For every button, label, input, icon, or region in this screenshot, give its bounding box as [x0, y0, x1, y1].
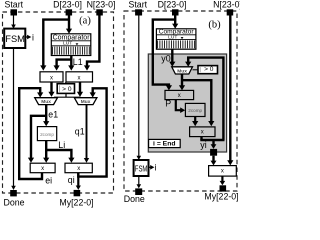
svg-text:> 0: > 0 [204, 66, 214, 73]
svg-text:D[23-0]: D[23-0] [53, 0, 82, 9]
svg-text:Done: Done [124, 194, 145, 204]
svg-text:N[23-0]: N[23-0] [213, 0, 240, 9]
svg-text:LUT: LUT [168, 35, 177, 41]
svg-text:Start: Start [129, 0, 148, 9]
svg-text:Comparator: Comparator [159, 28, 195, 35]
svg-text:N[23-0]: N[23-0] [87, 0, 116, 9]
svg-text:(b): (b) [208, 20, 221, 31]
svg-text:x: x [201, 130, 204, 136]
svg-text:Mux: Mux [41, 99, 51, 105]
svg-text:x: x [78, 75, 81, 81]
svg-text:Done: Done [4, 197, 25, 207]
svg-text:qi: qi [68, 175, 75, 185]
svg-text:ei: ei [45, 176, 52, 186]
svg-text:(a): (a) [79, 16, 91, 27]
svg-text:D[23-0]: D[23-0] [158, 0, 187, 9]
svg-text:y0: y0 [161, 53, 170, 63]
svg-text:yi: yi [200, 140, 206, 150]
svg-text:L1: L1 [73, 57, 83, 67]
svg-text:x: x [221, 169, 224, 175]
svg-text:x: x [50, 75, 53, 81]
svg-text:Li: Li [58, 140, 65, 150]
svg-text:> 0: > 0 [62, 86, 72, 93]
svg-text:My[22-0]: My[22-0] [59, 197, 93, 207]
svg-text:x: x [178, 93, 181, 99]
svg-text:P: P [165, 98, 171, 108]
svg-text:My[22-0]: My[22-0] [204, 192, 238, 202]
svg-text:x: x [77, 166, 80, 172]
svg-text:Mux: Mux [177, 68, 187, 74]
svg-text:2comp: 2comp [188, 108, 202, 113]
svg-text:Mux: Mux [81, 99, 91, 105]
svg-text:x: x [41, 166, 44, 172]
svg-text:FSM: FSM [5, 33, 25, 44]
svg-text:2comp: 2comp [40, 132, 54, 137]
svg-text:FSM: FSM [135, 165, 148, 174]
svg-text:q1: q1 [75, 127, 85, 137]
svg-text:i = End: i = End [153, 141, 175, 148]
svg-text:e1: e1 [48, 110, 58, 120]
svg-text:LUT: LUT [63, 41, 72, 47]
svg-text:i: i [32, 32, 34, 42]
svg-text:Comparator: Comparator [53, 34, 91, 41]
svg-text:Start: Start [5, 0, 24, 9]
svg-text:i: i [155, 163, 157, 173]
